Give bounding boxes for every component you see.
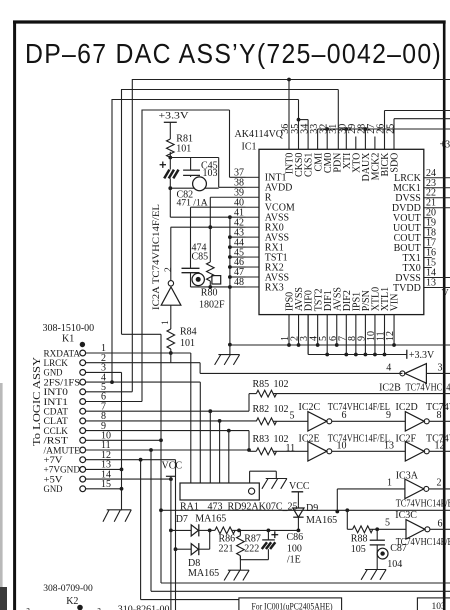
resistor R81 — [167, 139, 175, 158]
wire INT1 net (pin37 to K1-6) — [142, 109, 230, 111]
inverter IC2B — [405, 364, 427, 384]
wire K1-12 +7V — [86, 459, 176, 461]
wire node row — [240, 529, 298, 531]
svg-text:221: 221 — [219, 544, 234, 555]
svg-text:IC2B: IC2B — [379, 383, 401, 394]
svg-text:23: 23 — [426, 178, 436, 189]
resistor R82 — [256, 418, 276, 425]
wire K1-1 RXDATA — [86, 352, 191, 354]
svg-text:105: 105 — [351, 544, 366, 555]
svg-text:V: V — [442, 288, 450, 299]
svg-text:For IC001(uPC2405AHE): For IC001(uPC2405AHE) — [252, 601, 333, 610]
svg-text:+3.3V: +3.3V — [409, 350, 435, 361]
svg-text:MCK1: MCK1 — [393, 183, 421, 194]
wire bottom bus3 — [141, 599, 239, 601]
svg-text:17: 17 — [426, 238, 436, 249]
wire bottom bus2 — [151, 590, 450, 592]
svg-text:308-1510-00: 308-1510-00 — [43, 323, 95, 334]
ground K1 GND — [107, 509, 132, 511]
svg-text:IC2D: IC2D — [396, 402, 418, 413]
svg-text:TC74VHC14F/EL: TC74VHC14F/EL — [396, 499, 450, 510]
wire BICK (pin26) — [384, 111, 386, 150]
svg-text:UOUT: UOUT — [393, 223, 421, 234]
svg-text:R85: R85 — [253, 379, 270, 390]
border frame — [13, 20, 446, 23]
svg-text:VCC: VCC — [289, 481, 310, 492]
wire K1-9 CCLK — [86, 430, 249, 432]
svg-text:310-8261-00: 310-8261-00 — [118, 604, 170, 610]
svg-text:C86: C86 — [287, 532, 304, 543]
svg-text:101: 101 — [180, 338, 195, 349]
wire K1-13 +7VGND — [86, 468, 122, 470]
svg-text:100: 100 — [287, 544, 302, 555]
wire K1-4 2FS/1FS — [86, 381, 201, 383]
svg-text:MA165: MA165 — [188, 568, 219, 579]
svg-text:a: a — [97, 605, 101, 610]
svg-text:473: 473 — [208, 502, 223, 513]
svg-text:13: 13 — [384, 440, 394, 451]
AVSS node to ground — [228, 343, 232, 347]
box 103 — [417, 598, 450, 610]
capacitor C45 — [190, 158, 192, 171]
IC1 right pins 24-13 stubs/labels — [424, 286, 450, 288]
wire to C45 — [170, 157, 218, 159]
svg-text:21: 21 — [426, 198, 436, 209]
svg-text:MCK2: MCK2 — [371, 153, 382, 181]
left scan edge — [0, 383, 3, 610]
inverter IC3A — [405, 479, 424, 499]
svg-text:a: a — [26, 605, 30, 610]
svg-text:3: 3 — [438, 362, 443, 373]
svg-text:R80: R80 — [201, 288, 218, 299]
inverter IC2C — [308, 412, 327, 432]
svg-text:DAUX: DAUX — [361, 152, 372, 182]
diode D9 MA165 — [293, 508, 304, 517]
pin29 stub — [355, 137, 357, 150]
svg-text:To LOGIC ASSY: To LOGIC ASSY — [32, 357, 43, 446]
svg-text:D7: D7 — [176, 514, 188, 525]
svg-text:103: 103 — [203, 168, 218, 179]
svg-text:TC74VHC14F/EL: TC74VHC14F/EL — [406, 383, 450, 394]
svg-text:24: 24 — [426, 168, 436, 179]
svg-text:1: 1 — [161, 320, 171, 325]
wire VCOM to C85 — [191, 206, 246, 208]
inverter IC2D — [405, 412, 424, 432]
capacitor C86 — [267, 530, 269, 540]
svg-text:/1E: /1E — [287, 555, 301, 566]
svg-text:DVSS: DVSS — [395, 273, 421, 284]
wire CKS0/CKS1 net (to pins35,34) — [112, 99, 299, 101]
wire INT0 net (K1-5 to pin36) — [132, 79, 450, 81]
svg-text:6: 6 — [438, 519, 443, 530]
svg-text:SDO: SDO — [390, 153, 401, 173]
inverter IC2E — [308, 442, 327, 462]
svg-text:308-0709-00: 308-0709-00 — [43, 583, 93, 594]
svg-text:TC74VHC14F/EL: TC74VHC14F/EL — [396, 537, 450, 548]
svg-text:IC3A: IC3A — [396, 470, 419, 481]
svg-text:1802F: 1802F — [199, 300, 225, 311]
wire +7V col to bottom — [175, 549, 177, 610]
svg-text:18: 18 — [426, 228, 436, 239]
RA1 common to ground — [249, 471, 251, 483]
svg-text:RA1: RA1 — [180, 502, 199, 513]
wire C85/R80 ground rail — [191, 286, 230, 288]
svg-text:D9: D9 — [306, 503, 318, 514]
svg-text:9: 9 — [386, 410, 391, 421]
svg-text:IC3C: IC3C — [395, 510, 417, 521]
svg-text:VOUT: VOUT — [393, 213, 421, 224]
svg-text:BICK: BICK — [380, 152, 391, 177]
node R81 bottom — [168, 156, 172, 160]
wire SDO (pin25) — [393, 119, 395, 150]
svg-text:19: 19 — [426, 218, 436, 229]
svg-text:TX1: TX1 — [402, 253, 420, 264]
svg-text:6: 6 — [342, 410, 347, 421]
svg-text:IC2E: IC2E — [299, 433, 320, 444]
ground RA1 — [266, 478, 287, 480]
wire PDN net (to pin31) — [122, 89, 339, 91]
svg-text:GND: GND — [44, 484, 63, 495]
svg-text:MA165: MA165 — [195, 514, 226, 525]
AVSS taps bottom pins — [287, 343, 291, 347]
capacitor C87 — [376, 529, 378, 540]
wire K1-11 /AMUTE — [86, 449, 250, 451]
svg-text:RX3: RX3 — [265, 282, 284, 293]
svg-text:IC2C: IC2C — [299, 402, 321, 413]
svg-text:13: 13 — [426, 277, 436, 288]
wire bottom bus1 — [161, 582, 450, 584]
svg-text:14: 14 — [426, 268, 436, 279]
wire K1-3 GND — [86, 371, 122, 373]
ground R87/C86 — [228, 569, 249, 571]
IC U1 AK4114VQ body — [259, 149, 424, 314]
svg-text:22: 22 — [426, 188, 436, 199]
IC1 left pins 37-48 stubs/labels — [246, 176, 260, 178]
svg-text:VIN: VIN — [390, 294, 401, 312]
inverter IC2A — [161, 287, 181, 305]
svg-text:2: 2 — [437, 478, 442, 489]
wire K1-8 CLAT — [218, 419, 222, 423]
svg-text:10: 10 — [337, 440, 347, 451]
box For IC001 — [239, 598, 342, 610]
K1 pins circles/labels — [80, 350, 86, 356]
wire K1-15 GND — [86, 488, 122, 490]
svg-text:K2: K2 — [66, 596, 78, 607]
svg-text:+3.3V: +3.3V — [440, 140, 450, 151]
capacitor C85 — [182, 267, 200, 269]
svg-text:102: 102 — [274, 379, 289, 390]
svg-text:4: 4 — [386, 362, 391, 373]
resistor R83 — [256, 448, 276, 455]
+3.3V bus bottom — [308, 354, 407, 356]
svg-text:CKS1: CKS1 — [304, 153, 315, 177]
wire RX0 (pin42) — [171, 226, 246, 228]
resistor R84 — [170, 305, 172, 329]
wire C86 to R87 bottom — [240, 559, 268, 561]
wire bus y129 (pins 33,32,30,28) — [318, 128, 450, 130]
svg-text:TX0: TX0 — [402, 263, 420, 274]
svg-text:DVSS: DVSS — [395, 193, 421, 204]
diode D7 MA165 — [171, 529, 191, 531]
wire C45 node to pin38 AVDD — [218, 158, 220, 188]
resistor array RA1 — [180, 483, 259, 500]
svg-text:BOUT: BOUT — [394, 243, 421, 254]
AVSS bus to right edge — [230, 344, 450, 346]
svg-text:TC74VHC14F/EL: TC74VHC14F/EL — [328, 402, 390, 413]
svg-text:R82: R82 — [253, 404, 270, 415]
resistor R85 — [256, 390, 276, 397]
ground C87 — [365, 569, 386, 571]
via circle C85 — [192, 273, 204, 285]
svg-text:102: 102 — [274, 404, 289, 415]
svg-text:INT0: INT0 — [285, 153, 296, 175]
svg-text:DP–67 DAC ASS’Y(725–0042–00): DP–67 DAC ASS’Y(725–0042–00) — [25, 38, 442, 70]
inverter IC2F — [405, 442, 424, 462]
svg-text:5: 5 — [290, 410, 295, 421]
wire C82 rail — [171, 187, 219, 189]
svg-text:16: 16 — [426, 248, 436, 259]
resistor R86 — [210, 529, 215, 531]
svg-text:101: 101 — [176, 144, 191, 155]
svg-text:36: 36 — [280, 124, 291, 134]
svg-text:TC74VHC14F/EL: TC74VHC14F/EL — [426, 433, 450, 444]
ground AVSS — [218, 354, 239, 356]
resistor R80 — [207, 262, 215, 281]
svg-text:IC2F: IC2F — [396, 433, 417, 444]
svg-text:11: 11 — [286, 443, 296, 454]
svg-text:5: 5 — [385, 518, 390, 529]
svg-text:MA165: MA165 — [306, 515, 337, 526]
svg-text:LRCK: LRCK — [394, 173, 421, 184]
wire K1-10 /RST — [86, 439, 161, 441]
svg-text:XTO: XTO — [351, 153, 362, 173]
svg-text:XTI: XTI — [342, 153, 353, 170]
svg-text:R84: R84 — [180, 327, 197, 338]
svg-text:AK4114VQ: AK4114VQ — [235, 129, 284, 140]
svg-text:CKS0: CKS0 — [294, 153, 305, 177]
svg-text:R83: R83 — [253, 434, 270, 445]
pin3 stub — [307, 315, 309, 355]
wire C82 gnd to AVSS bus — [169, 188, 171, 217]
svg-text:COUT: COUT — [394, 233, 421, 244]
svg-text:35: 35 — [290, 124, 301, 134]
svg-text:CMI: CMI — [313, 153, 324, 172]
svg-text:CM0: CM0 — [323, 153, 334, 174]
svg-text:RD92AK07C_25: RD92AK07C_25 — [228, 502, 298, 513]
svg-text:C85: C85 — [192, 252, 209, 263]
capacitor C82 polarized — [160, 164, 166, 166]
svg-text:1: 1 — [387, 478, 392, 489]
svg-text:103: 103 — [432, 602, 447, 610]
svg-text:IC1: IC1 — [242, 142, 257, 153]
svg-text:15: 15 — [426, 258, 436, 269]
wire K1-2 LRCK — [86, 362, 201, 364]
svg-text:2: 2 — [164, 267, 174, 272]
svg-text:K1: K1 — [62, 334, 74, 345]
pin27 stub — [374, 137, 376, 150]
svg-text:IC2A TC74VHC14F/EL: IC2A TC74VHC14F/EL — [151, 204, 162, 310]
inverter IC3C — [406, 520, 425, 540]
via circle under C45 — [193, 177, 207, 191]
diode D8 MA165 — [176, 548, 192, 550]
wire /RST to R88 — [161, 509, 450, 511]
svg-text:+3.3V: +3.3V — [159, 112, 189, 122]
svg-text:PDN: PDN — [332, 153, 343, 173]
resistor R88 — [353, 526, 373, 533]
AVSS bus vertical + pin taps — [229, 217, 231, 344]
svg-text:222: 222 — [244, 544, 259, 555]
svg-text:TVDD: TVDD — [393, 283, 421, 294]
svg-text:R88: R88 — [351, 534, 368, 545]
wire K1-14 +5V — [86, 478, 171, 480]
svg-text:104: 104 — [387, 559, 402, 570]
svg-text:DVDD: DVDD — [392, 203, 421, 214]
svg-text:20: 20 — [426, 208, 436, 219]
svg-text:VCC: VCC — [162, 461, 183, 472]
svg-text:TC74VHC14F/EL: TC74VHC14F/EL — [426, 402, 450, 413]
wire K1-7 CDAT — [86, 410, 249, 412]
resistor R87 — [237, 536, 245, 556]
wire VCC to D7 and bottom — [170, 479, 172, 610]
